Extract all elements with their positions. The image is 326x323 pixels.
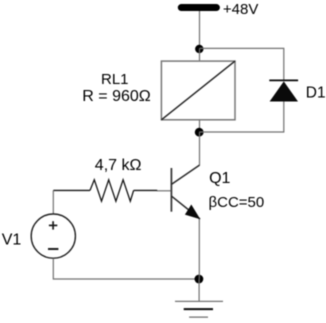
wire node C to ground xyxy=(198,279,200,301)
svg-text:+48V: +48V xyxy=(223,1,258,18)
wire node B to diode anode xyxy=(199,102,284,133)
power bar +48V xyxy=(181,4,216,11)
wire node A to relay top xyxy=(199,48,201,61)
wire relay bottom to node B xyxy=(199,120,201,132)
node A junction dot xyxy=(195,45,203,53)
wire node B to collector xyxy=(199,132,201,165)
svg-text:4,7 kΩ: 4,7 kΩ xyxy=(95,157,142,174)
relay RL1 box xyxy=(161,61,235,120)
svg-text:βCC=50: βCC=50 xyxy=(209,194,265,211)
svg-text:RL1: RL1 xyxy=(101,71,129,88)
wire emitter to node C xyxy=(198,219,200,279)
voltage source V1 xyxy=(31,214,75,258)
diode D1 xyxy=(269,80,298,101)
wire power bar to node A xyxy=(199,11,201,48)
node B junction dot xyxy=(195,128,204,137)
node C junction dot xyxy=(195,275,204,284)
wire node A to diode cathode xyxy=(200,48,284,80)
transistor Q1 xyxy=(171,165,200,219)
wire V1 top to resistor xyxy=(52,190,54,214)
svg-text:R = 960Ω: R = 960Ω xyxy=(82,88,150,105)
ground xyxy=(175,301,223,317)
wire resistor lead to base xyxy=(157,190,171,192)
svg-text:Q1: Q1 xyxy=(209,170,230,187)
wire V1 bottom to node C xyxy=(53,258,199,279)
resistor R 4,7k zigzag with leads xyxy=(53,180,157,201)
svg-text:V1: V1 xyxy=(2,231,22,248)
relay RL1 diagonal xyxy=(161,61,235,120)
svg-text:D1: D1 xyxy=(306,85,326,102)
